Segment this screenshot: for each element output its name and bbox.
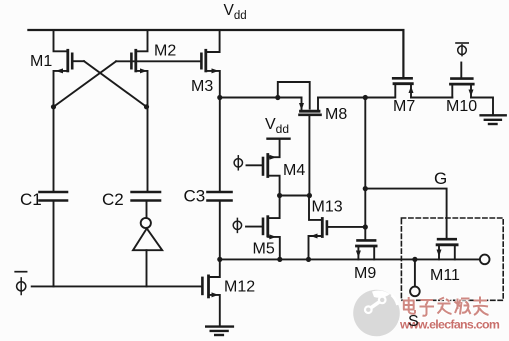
svg-text:M10: M10 — [446, 98, 477, 115]
node junction dot M4/M5 — [277, 193, 282, 198]
wire M8 bulk loop — [278, 82, 310, 109]
node Vdd label — [224, 2, 247, 22]
wire Vdd mid stub — [268, 137, 290, 139]
svg-text:M5: M5 — [253, 241, 275, 258]
node M10 label — [446, 98, 477, 115]
node junction dot — [217, 257, 222, 262]
node M11 label — [430, 267, 460, 284]
wire G net — [365, 189, 446, 239]
node M3 label — [191, 78, 213, 95]
svg-text:M13: M13 — [312, 199, 343, 216]
transistor M12 — [202, 259, 219, 326]
svg-text:M9: M9 — [354, 265, 376, 282]
node junction dot — [412, 257, 417, 262]
node C1 label — [20, 190, 42, 209]
wire phi-bar to M12 gate — [32, 285, 201, 287]
transistor M5 — [263, 196, 280, 260]
svg-text:C2: C2 — [102, 190, 124, 209]
svg-text:G: G — [434, 169, 447, 188]
node phi label M4 — [234, 156, 242, 170]
wire M10 to ground — [471, 98, 493, 115]
ground top-right — [481, 115, 506, 124]
wire bottom rail — [220, 258, 480, 260]
ground below M12 — [206, 327, 233, 335]
wire cross-coupling M2 gate to M1 column — [54, 61, 117, 107]
node junction dot right — [144, 104, 149, 109]
node junction dot — [363, 95, 368, 100]
svg-text:M4: M4 — [283, 162, 305, 179]
wire cross-coupling M1 gate to M2 column — [84, 61, 147, 107]
wire Vdd rail — [28, 30, 403, 77]
node C2 label — [102, 190, 124, 209]
node M8 label — [325, 106, 347, 123]
node M5 label — [253, 241, 275, 258]
wire node to M13 drain — [280, 195, 310, 197]
wire phi to M5 gate — [246, 226, 262, 228]
wire column node to M9 gate — [364, 98, 366, 240]
transistor M4 — [263, 140, 280, 196]
svg-text:S: S — [408, 313, 419, 330]
transistor M9 — [356, 240, 376, 259]
transistor M11 — [437, 239, 458, 259]
svg-text:C1: C1 — [20, 190, 42, 209]
svg-text:M12: M12 — [224, 279, 255, 296]
svg-text:M11: M11 — [430, 267, 460, 284]
node junction dot — [217, 95, 222, 100]
node phi-bar bottom label — [15, 272, 26, 295]
transistor M7 — [393, 78, 413, 97]
capacitor C3 — [208, 192, 232, 259]
node junction dot — [277, 257, 282, 262]
svg-text:M2: M2 — [154, 43, 176, 60]
node Vdd mid label — [265, 116, 289, 136]
wire node to M8 — [220, 97, 302, 99]
svg-text:M1: M1 — [30, 53, 52, 70]
node M4 label — [283, 162, 305, 179]
terminal bottom circle — [410, 287, 420, 297]
node M13 label — [312, 199, 343, 216]
transistor M3 — [201, 30, 219, 191]
node junction dot — [307, 193, 312, 198]
wire phi to M4 gate — [247, 164, 262, 166]
node junction dot — [363, 186, 368, 191]
transistor M2 — [116, 30, 201, 191]
node phi-bar top label — [456, 43, 468, 56]
node G label — [434, 169, 447, 188]
capacitor C1 — [40, 192, 68, 286]
watermark logo — [353, 290, 400, 337]
node junction dot — [363, 224, 368, 229]
inverter — [133, 218, 162, 287]
node M2 label — [154, 43, 176, 60]
wire M8 to M7 — [318, 97, 395, 99]
wire M7 to M10 — [411, 97, 452, 99]
node junction dot left — [51, 104, 56, 109]
node C3 label — [184, 187, 206, 206]
dashed box — [401, 218, 503, 300]
node M9 label — [354, 265, 376, 282]
terminal right circle — [480, 255, 490, 265]
svg-text:C3: C3 — [184, 187, 206, 206]
wire phi-bar to M10 gate — [460, 63, 462, 78]
transistor M13 — [309, 196, 366, 260]
node M7 label — [393, 98, 415, 115]
node junction dot — [306, 257, 311, 262]
transistor M1 — [54, 30, 85, 191]
svg-text:M8: M8 — [325, 106, 347, 123]
capacitor C2 — [132, 192, 160, 218]
transistor M8 — [299, 98, 321, 196]
node M1 label — [30, 53, 52, 70]
watermark text line 1 — [403, 297, 489, 316]
svg-text:M3: M3 — [191, 78, 213, 95]
node M12 label — [224, 279, 255, 296]
transistor M10 — [451, 79, 474, 98]
node junction dot — [275, 95, 280, 100]
node phi label M5 — [233, 218, 241, 232]
svg-text:M7: M7 — [393, 98, 415, 115]
wire terminal drop — [414, 259, 416, 286]
